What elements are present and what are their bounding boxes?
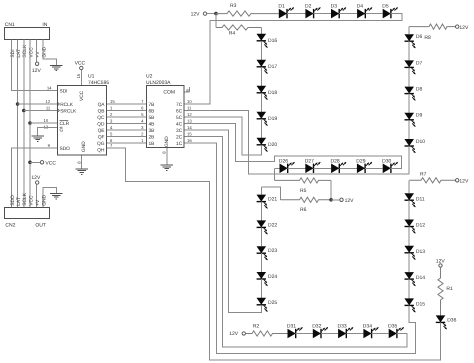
svg-text:GND: GND — [41, 194, 47, 205]
svg-text:QG: QG — [97, 141, 105, 147]
wire R8 to D6 — [408, 27, 410, 35]
svg-text:QD: QD — [97, 122, 105, 128]
svg-text:12V: 12V — [191, 12, 201, 18]
svg-text:14: 14 — [187, 125, 192, 130]
12V terminal (R7) — [456, 178, 469, 184]
svg-text:D22: D22 — [268, 222, 277, 228]
svg-text:D30: D30 — [382, 158, 391, 164]
svg-text:VCC: VCC — [75, 61, 86, 67]
svg-text:4C: 4C — [176, 122, 183, 128]
wire D21 anode feed — [261, 187, 280, 200]
LED D4 — [339, 3, 372, 18]
resistor R6 — [281, 197, 332, 213]
LED D20 — [257, 119, 278, 152]
LED D7 — [404, 41, 422, 74]
LED D29 — [339, 158, 372, 173]
ground (CN1) — [50, 65, 63, 70]
junction R5/R6 — [329, 198, 339, 202]
LED D17 — [257, 41, 278, 74]
svg-text:D6: D6 — [416, 34, 423, 40]
svg-text:+V: +V — [35, 199, 41, 206]
U2 right pin numbers — [187, 99, 192, 143]
LED D22 — [257, 202, 278, 235]
svg-text:QB: QB — [98, 109, 105, 115]
LED D11 — [404, 193, 425, 207]
wire SCLK (CN1 to CN2) — [23, 39, 25, 207]
wire U1 GND pin 8 — [76, 156, 81, 169]
svg-text:RCLK: RCLK — [60, 102, 74, 108]
resistor R2 — [245, 323, 287, 336]
svg-text:1C: 1C — [176, 141, 183, 147]
LED D1 — [278, 3, 293, 18]
svg-text:11: 11 — [46, 105, 51, 110]
svg-text:2B: 2B — [149, 135, 155, 141]
LED D8 — [404, 67, 422, 100]
wire CN1 GND — [43, 39, 56, 65]
svg-text:12V: 12V — [345, 198, 355, 204]
svg-text:U1: U1 — [88, 74, 95, 80]
svg-text:GND: GND — [81, 141, 87, 152]
svg-text:D19: D19 — [268, 116, 277, 122]
resistor R8 — [409, 24, 455, 41]
svg-text:R3: R3 — [230, 3, 237, 9]
svg-text:GND: GND — [41, 46, 47, 57]
LED D31 — [287, 323, 303, 338]
wire R5 to junction — [330, 180, 332, 199]
svg-text:VCC: VCC — [79, 90, 85, 101]
svg-text:D31: D31 — [287, 323, 296, 329]
12V terminal (top rail) — [191, 12, 216, 18]
wire SDO (U1 pin 9 to CN2) — [11, 148, 57, 207]
svg-text:10: 10 — [44, 118, 49, 123]
svg-text:D9: D9 — [416, 113, 423, 119]
ground (U1) — [75, 169, 88, 174]
LED D9 — [404, 94, 422, 127]
svg-text:D34: D34 — [363, 323, 372, 329]
svg-text:D20: D20 — [268, 142, 277, 148]
resistor R3 — [216, 3, 279, 16]
svg-text:GND: GND — [164, 136, 170, 147]
svg-text:D14: D14 — [416, 275, 425, 281]
wire into D26 row — [275, 167, 280, 169]
connector CN1 — [5, 22, 50, 40]
svg-text:D1: D1 — [278, 3, 285, 9]
ground (U1 pin 13) — [31, 136, 44, 141]
driver U2 ULN2003A — [146, 74, 184, 148]
svg-text:SDI: SDI — [10, 49, 16, 57]
wire SDI (CN1 to U1 pin 14) — [11, 39, 57, 90]
svg-text:U2: U2 — [146, 74, 153, 80]
LED D30 — [365, 158, 398, 173]
svg-text:SDI: SDI — [60, 89, 68, 95]
svg-text:R7: R7 — [420, 171, 427, 177]
svg-text:D24: D24 — [268, 274, 277, 280]
svg-text:IN: IN — [42, 22, 47, 28]
svg-text:3C: 3C — [176, 128, 183, 134]
wire CN2 GND — [43, 188, 56, 208]
12V terminal (CN1 +V) — [32, 39, 42, 74]
svg-text:D8: D8 — [416, 87, 423, 93]
12V terminal (CN2 +V) — [31, 175, 41, 207]
svg-text:D10: D10 — [416, 139, 425, 145]
LED D33 — [321, 323, 353, 338]
svg-text:10: 10 — [187, 99, 192, 104]
svg-text:12V: 12V — [31, 175, 41, 181]
LED D5 — [365, 3, 397, 18]
LED D32 — [296, 323, 328, 338]
ground (CN2) — [50, 194, 63, 199]
wire R4 to D16 — [260, 28, 262, 34]
wire D20 return to U2 pin12 (5C) — [185, 117, 262, 155]
svg-text:+V: +V — [35, 51, 41, 58]
svg-text:74HC595: 74HC595 — [88, 80, 109, 86]
svg-text:3B: 3B — [149, 128, 155, 134]
svg-text:15: 15 — [187, 131, 192, 136]
wire to R4 — [215, 14, 217, 28]
12V terminal (R5/R6) — [340, 198, 354, 204]
svg-text:ULN2003A: ULN2003A — [146, 80, 171, 86]
svg-text:5B: 5B — [149, 115, 155, 121]
svg-text:12V: 12V — [459, 25, 469, 31]
junction VCC/CLR wire — [28, 121, 57, 125]
junction top rail — [214, 12, 218, 16]
wire LAT (CN1 to CN2) — [17, 39, 19, 207]
svg-text:11: 11 — [187, 105, 192, 110]
svg-text:D27: D27 — [305, 158, 314, 164]
LED D14 — [404, 253, 425, 286]
resistor R5 — [275, 178, 332, 194]
svg-text:15: 15 — [110, 99, 115, 104]
svg-text:SRCLK: SRCLK — [60, 109, 77, 115]
svg-text:R4: R4 — [229, 31, 236, 37]
LED D13 — [404, 227, 425, 260]
svg-text:D25: D25 — [268, 300, 277, 306]
svg-text:D11: D11 — [416, 196, 425, 202]
VCC terminal (CN2 branch) — [28, 160, 56, 166]
svg-text:SDO: SDO — [10, 195, 16, 206]
LED D34 — [346, 323, 378, 338]
svg-text:QC: QC — [97, 115, 105, 121]
svg-text:G: G — [60, 128, 64, 134]
svg-text:14: 14 — [47, 85, 52, 90]
LED D15 — [404, 279, 425, 312]
LED D26 — [279, 158, 295, 173]
LED D21 — [257, 195, 278, 209]
svg-text:5C: 5C — [176, 115, 183, 121]
wire D15 return to U2 pin16 (1C) — [185, 143, 416, 354]
svg-text:16: 16 — [76, 73, 81, 78]
svg-text:12V: 12V — [459, 178, 469, 184]
LED D6 — [404, 34, 422, 48]
svg-text:COM: COM — [163, 90, 175, 96]
svg-text:12: 12 — [46, 99, 51, 104]
svg-text:D4: D4 — [357, 3, 364, 9]
VCC terminal (U1 pin 16) — [75, 61, 86, 85]
CN2 pin labels — [10, 192, 48, 206]
svg-text:13: 13 — [187, 118, 192, 123]
svg-text:D36: D36 — [447, 318, 456, 324]
svg-text:VCC: VCC — [28, 195, 34, 206]
12V terminal (bottom row) — [229, 331, 245, 337]
wire U1 pin13 to ground — [38, 128, 57, 136]
wire D5 return to U2 pin10 (7C) — [185, 14, 402, 104]
svg-text:VCC: VCC — [45, 160, 56, 166]
svg-text:D21: D21 — [268, 197, 277, 203]
svg-text:R8: R8 — [424, 35, 431, 41]
LED D36 — [436, 315, 457, 329]
svg-text:7B: 7B — [149, 102, 155, 108]
junction LAT/RCLK — [16, 102, 57, 106]
LED D23 — [257, 227, 278, 260]
LED D10 — [404, 120, 425, 153]
wire D25 return to U2 pin14 (3C) — [185, 130, 262, 312]
svg-text:D3: D3 — [331, 3, 338, 9]
svg-text:CN1: CN1 — [5, 22, 15, 28]
svg-text:R5: R5 — [300, 188, 307, 194]
connector CN2 — [5, 208, 50, 229]
LED D35 — [372, 323, 404, 338]
ground (U2) — [161, 165, 174, 170]
svg-text:QA: QA — [98, 102, 106, 108]
LED D16 — [257, 34, 278, 48]
wire D10 return to U2 pin11 (6C) — [185, 111, 410, 175]
LED D12 — [404, 200, 425, 233]
12V terminal (R1) — [436, 258, 446, 267]
wires U1 QA-QG to U2 7B-1B — [107, 99, 146, 143]
svg-text:LAT: LAT — [16, 197, 22, 206]
svg-text:1B: 1B — [149, 141, 155, 147]
svg-text:13: 13 — [44, 124, 49, 129]
svg-text:R2: R2 — [253, 323, 260, 329]
wire VCC (CN1 to CN2) — [29, 39, 31, 207]
CN1 pin labels — [10, 44, 48, 58]
svg-text:SCLK: SCLK — [22, 44, 28, 58]
LED D2 — [287, 3, 320, 18]
wire D30 return to U2 pin13 (4C) — [185, 124, 402, 169]
svg-text:6B: 6B — [149, 109, 155, 115]
LED D27 — [288, 158, 321, 173]
12V terminal (R8) — [456, 25, 469, 31]
resistor R1 — [438, 267, 453, 315]
wire D35 return to U2 pin15 (2C) — [185, 137, 407, 348]
svg-text:D17: D17 — [268, 64, 277, 70]
svg-text:D26: D26 — [279, 158, 288, 164]
svg-text:QE: QE — [98, 128, 105, 134]
svg-text:16: 16 — [187, 138, 192, 143]
LED D28 — [314, 158, 347, 173]
svg-text:12: 12 — [187, 112, 192, 117]
U1 left pin numbers — [44, 85, 53, 148]
svg-text:D33: D33 — [338, 323, 347, 329]
wire R7 to D11 — [408, 180, 410, 193]
svg-text:OUT: OUT — [35, 223, 46, 229]
svg-text:D23: D23 — [268, 248, 277, 254]
svg-text:D5: D5 — [382, 3, 389, 9]
svg-text:VCC: VCC — [28, 47, 34, 58]
resistor R7 — [409, 171, 455, 183]
svg-text:SDO: SDO — [60, 146, 71, 152]
svg-text:7C: 7C — [176, 102, 183, 108]
svg-text:D18: D18 — [268, 90, 277, 96]
svg-text:D12: D12 — [416, 223, 425, 229]
wire D26 anode to R5 — [274, 168, 276, 180]
svg-text:D2: D2 — [305, 3, 312, 9]
svg-text:D13: D13 — [416, 249, 425, 255]
svg-text:CN2: CN2 — [5, 223, 15, 229]
wire U1 QH pin7 routing — [107, 143, 441, 360]
junction SCLK/SRCLK — [22, 109, 57, 113]
svg-text:D35: D35 — [388, 323, 397, 329]
LED D25 — [257, 279, 278, 312]
resistor R4 — [216, 25, 261, 37]
svg-text:LAT: LAT — [16, 49, 22, 58]
LED D18 — [257, 67, 278, 100]
svg-text:2C: 2C — [176, 135, 183, 141]
svg-text:R1: R1 — [446, 286, 453, 292]
svg-text:6C: 6C — [176, 109, 183, 115]
COM pin 9 stub — [185, 87, 191, 92]
svg-text:R6: R6 — [300, 207, 307, 213]
wire U2 GND pin 8 — [162, 148, 167, 165]
LED D19 — [257, 93, 278, 126]
svg-text:12V: 12V — [229, 331, 239, 337]
svg-text:QF: QF — [98, 135, 105, 141]
wire feed to D21 — [260, 187, 262, 194]
svg-text:D29: D29 — [356, 158, 365, 164]
svg-text:CLR: CLR — [60, 121, 70, 127]
svg-text:D15: D15 — [416, 302, 425, 308]
svg-text:SCLK: SCLK — [22, 192, 28, 206]
LED D24 — [257, 253, 278, 286]
op-amp U1 74HC595 — [57, 74, 109, 156]
svg-text:D7: D7 — [416, 60, 423, 66]
svg-text:D28: D28 — [331, 158, 340, 164]
svg-text:4B: 4B — [149, 122, 155, 128]
svg-text:D16: D16 — [268, 38, 277, 44]
svg-text:D32: D32 — [312, 323, 321, 329]
LED D3 — [314, 3, 346, 18]
svg-text:12V: 12V — [32, 68, 42, 74]
svg-text:QH: QH — [97, 148, 105, 154]
